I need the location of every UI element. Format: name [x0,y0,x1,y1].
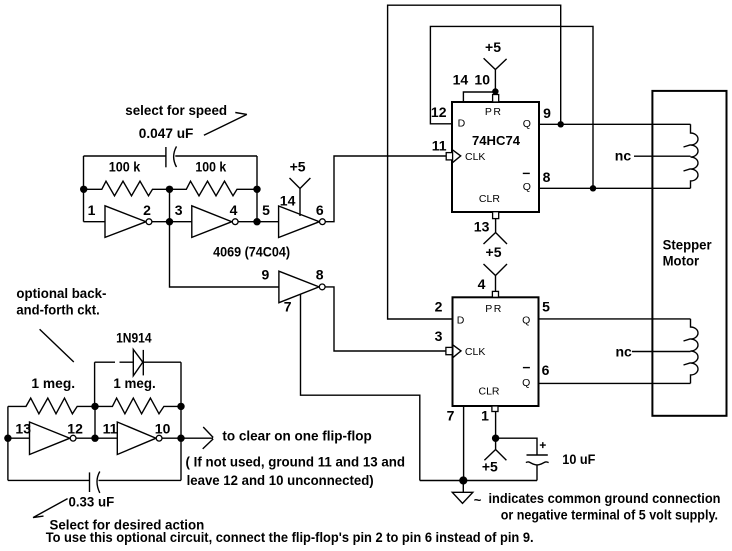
FF2 CLK input bubble square (pin 3) [446,347,452,354]
svg-text:12: 12 [67,420,83,436]
svg-text:0.33 uF: 0.33 uF [69,494,115,509]
wire inverter U1F output to right node [162,437,181,439]
svg-text:leave 12 and 10 unconnected): leave 12 and 10 unconnected) [187,473,374,488]
wire input to inverter U1E [8,437,30,439]
D flip-flop U2B box [453,297,539,406]
svg-text:~: ~ [474,492,482,507]
svg-text:optional back-: optional back- [16,286,106,301]
wire diode branch right segment [143,361,181,363]
svg-text:7: 7 [284,298,292,314]
svg-text:4069 (74C04): 4069 (74C04) [213,245,290,260]
wire input to inverter U1C buffer [257,221,279,223]
wire right vertical of oscillator loop (x=257) [256,156,258,222]
wire input to inverter U1F [95,437,117,439]
svg-text:+5: +5 [482,459,498,475]
svg-text:and-forth ckt.: and-forth ckt. [16,303,99,318]
wire node to 10uF capacitor top [496,438,537,454]
wire left vertical of oscillator loop (x=83.5) [83,156,85,222]
wire inverter U1A output to mid node [152,221,170,223]
svg-text:2: 2 [143,202,151,218]
wire from node 2/3 down to inverter U1D input [170,222,279,287]
svg-text:CLK: CLK [465,151,485,163]
svg-text:5: 5 [542,299,550,315]
wire diode branch right vertical down to bottom rail [180,362,182,480]
wire top rail of oscillator loop (y=156) left segment to capacitor [84,155,166,157]
resistor R1 100k [84,181,170,196]
svg-text:Q: Q [523,118,531,130]
wire left vertical (x=7.9) from resistor row to bottom rail [7,406,9,480]
svg-text:6: 6 [316,202,324,218]
svg-text:D: D [457,314,465,326]
svg-text:14: 14 [453,72,469,88]
node junction dot R1/R2 mid [166,186,173,193]
+5 supply symbol above U1C pin 14 [290,178,311,216]
node junction dot R3/R4 mid [91,403,98,410]
svg-text:Motor: Motor [663,254,700,269]
svg-text:11: 11 [432,138,447,154]
wire FF1 D (pin 12) feedback loop from Qbar: left, up, right, down [430,26,593,188]
svg-text:nc: nc [615,148,632,164]
svg-text:Q: Q [522,314,530,326]
wire ground rail [420,480,537,482]
annotation leader line for 0.33 uF [33,499,68,518]
inverter U1F (4069 pins 11-10) [117,422,156,455]
node junction dot R4 right [177,403,184,410]
resistor R4 1 meg [95,398,181,414]
wire diode branch left segment (with drawing gap) [95,361,134,363]
wire bottom rail left segment to 0.33uF cap [8,479,90,481]
D flip-flop U2A box 74HC74 [452,102,539,212]
capacitor C3 polarity plus sign [540,442,546,448]
svg-text:+5: +5 [485,39,501,55]
+5 supply symbol below pin 1 node [484,438,506,460]
FF2 CLR pin square bubble (pin 1) [492,406,498,412]
svg-text:9: 9 [262,266,270,282]
wire input to inverter U1A [84,221,106,223]
svg-text:D: D [458,117,466,129]
arrow head (open) pointing right [203,427,214,449]
FF2 PR pin square bubble (pin 4) [492,291,498,297]
wire FF1 Q (pin 9) to stepper coil [539,123,691,125]
ground symbol stem [462,481,464,493]
FF2 Qbar overbar [523,367,530,369]
svg-text:10 uF: 10 uF [562,452,595,467]
svg-text:CLK: CLK [465,346,485,358]
svg-text:2: 2 [435,299,443,315]
inverter U1F output bubble [156,435,162,441]
inverter U1D (4069 pins 9-8) [279,271,319,303]
svg-text:+5: +5 [290,159,306,175]
wire nc to L1 center tap [634,155,691,157]
node junction dot R2/right rail [253,186,260,193]
svg-text:10: 10 [155,420,171,436]
capacitor C1 0.047 uF right curved plate [174,146,177,167]
svg-text:1: 1 [88,202,96,218]
FF1 Qbar overbar [523,172,530,174]
svg-text:8: 8 [316,266,324,282]
capacitor C3 curved bottom plate [526,462,549,465]
diode D1 triangle [133,350,143,376]
svg-text:11: 11 [103,420,118,436]
node junction dot ground rail [459,476,467,484]
inverter U1B output bubble [232,219,238,225]
svg-text:+5: +5 [486,244,502,260]
node junction dot above PR pin [492,88,498,94]
wire FF2 D cross-coupling: from Q1 node up and left (y=5.2) [388,5,561,319]
svg-text:12: 12 [431,104,447,120]
wire FF1 Qbar (pin 8) to stepper coil [539,187,691,189]
svg-text:7: 7 [447,408,455,424]
wire top rail right segment from capacitor to right vertical [175,155,257,157]
svg-text:74HC74: 74HC74 [472,134,520,148]
wire FF2 Q (pin 5) to stepper coil 2 [539,318,691,320]
FF1 CLR pin square bubble (pin 13) [493,212,499,219]
node junction dot right [177,435,184,442]
svg-text:nc: nc [616,343,633,359]
wire FF2 pin 7 stub down to ground rail [463,406,465,481]
svg-text:( If not used, ground 11 and 1: ( If not used, ground 11 and 13 and [186,454,406,469]
ground symbol triangle [452,492,473,503]
inverter U1E (4069 pins 13-12) [30,422,70,455]
inverter U1C (4069 pins 5-6) [279,206,320,238]
annotation leader line for select for speed [204,113,247,136]
svg-text:4: 4 [230,202,238,218]
capacitor C3 10 uF top plate [527,454,548,456]
capacitor C1 0.047 uF left plate [165,147,167,167]
svg-text:to clear on one flip-flop: to clear on one flip-flop [222,429,371,444]
wire bottom rail right segment [99,479,182,481]
wire 10uF bottom to ground rail [536,465,538,481]
node junction dot left rail/R1 [80,186,87,193]
svg-text:100 k: 100 k [109,159,141,174]
wire to arrow [181,437,213,439]
svg-text:PR: PR [485,106,503,118]
node junction dot inverter1 out / inverter2 in [166,218,173,225]
wire inverter U1B output to right node [238,221,257,223]
wire FF1 pin14 stub to +5 junction [463,92,495,102]
+5 supply symbol above FF2 PR (pin 4) [484,264,508,291]
svg-text:3: 3 [175,202,183,218]
capacitor C2 0.33 uF straight plate [89,472,91,492]
wire FF1 CLR stem to +5 [484,219,508,244]
svg-text:or negative terminal of 5 volt: or negative terminal of 5 volt supply. [501,507,718,522]
svg-text:5: 5 [262,202,270,218]
svg-text:13: 13 [474,218,490,234]
inverter U1E output bubble [70,435,76,441]
svg-text:Stepper: Stepper [663,238,713,253]
node junction dot mid [91,435,98,442]
svg-text:6: 6 [542,362,550,378]
op-amp style inverter U1A (4069 pins 1-2) [105,206,146,238]
resistor R2 100k [170,181,258,196]
svg-text:14: 14 [280,192,296,208]
stepper motor box [652,91,726,416]
node junction dot Qbar / D feedback [590,185,596,191]
wire nc to L2 center tap [632,351,691,353]
node junction dot inverter2 out / buffer in [253,218,260,225]
node junction dot left inverter input [4,435,11,442]
wire mid vertical R3/R4 node to inverter node [94,406,96,438]
diode D1 cathode bar [142,350,144,376]
FF1 CLK input bubble square (pin 11) [446,153,452,160]
FF1 CLK edge triangle [453,150,461,163]
node junction dot on Q wire [558,121,564,127]
svg-text:1 meg.: 1 meg. [31,376,75,391]
svg-text:0.047 uF: 0.047 uF [139,126,194,141]
svg-text:PR: PR [485,303,503,315]
wire inverter U1E output to mid node [76,437,95,439]
svg-text:select for speed: select for speed [125,103,227,118]
svg-text:CLR: CLR [479,385,500,397]
FF2 CLK edge triangle [453,345,461,358]
wire mid vertical between resistor node and inverter node (x=169.5) [169,189,171,221]
svg-text:To use this optional circuit,: To use this optional circuit, connect th… [46,530,534,545]
svg-text:10: 10 [474,72,490,88]
wire FF2 Qbar (pin 6) to stepper coil 2 [539,382,691,384]
svg-text:3: 3 [435,328,443,344]
svg-text:13: 13 [15,420,31,436]
inverter U1C output bubble [320,219,326,225]
svg-text:indicates common ground connec: indicates common ground connection [489,491,721,506]
wire U1D output down and right to FF2 CLK (pin 3) [325,287,446,351]
svg-text:CLR: CLR [479,193,500,205]
+5 supply symbol above FF1 PR [484,58,507,94]
coil L2 inner curl marks [684,339,691,365]
inverter U1A output bubble [146,219,152,225]
inductor coil L2 (bottom winding) [691,319,699,384]
svg-text:8: 8 [543,169,551,185]
wire U1C output up and right to FF1 CLK (pin 11) [325,156,446,222]
svg-text:1N914: 1N914 [116,330,152,345]
capacitor C2 curved plate [97,472,100,493]
coil L1 inner curl marks [684,145,691,171]
svg-text:1 meg.: 1 meg. [113,376,155,391]
svg-text:4: 4 [478,276,486,292]
inductor coil L1 (top winding) [691,124,699,188]
wire input to inverter U1B [170,221,192,223]
wire 4069 pin 7 ground run down, right, down to ground rail [301,294,420,480]
node junction dot pin1 / +5 / cap [492,435,499,442]
svg-text:1: 1 [481,408,489,424]
svg-text:9: 9 [543,105,551,121]
inverter U1B (4069 pins 3-4) [192,206,232,238]
resistor R3 1 meg [8,398,95,414]
FF1 PR pin square bubble (pin 10) [493,95,499,103]
svg-text:100 k: 100 k [195,159,226,174]
inverter U1D output bubble [319,284,325,290]
svg-text:Q: Q [522,377,530,389]
wire diode branch left vertical down to resistor row [94,362,96,406]
annotation leader line [40,329,74,362]
svg-text:Q: Q [523,181,531,193]
wire FF2 CLR (pin 1) stem down to cap node [495,412,497,439]
